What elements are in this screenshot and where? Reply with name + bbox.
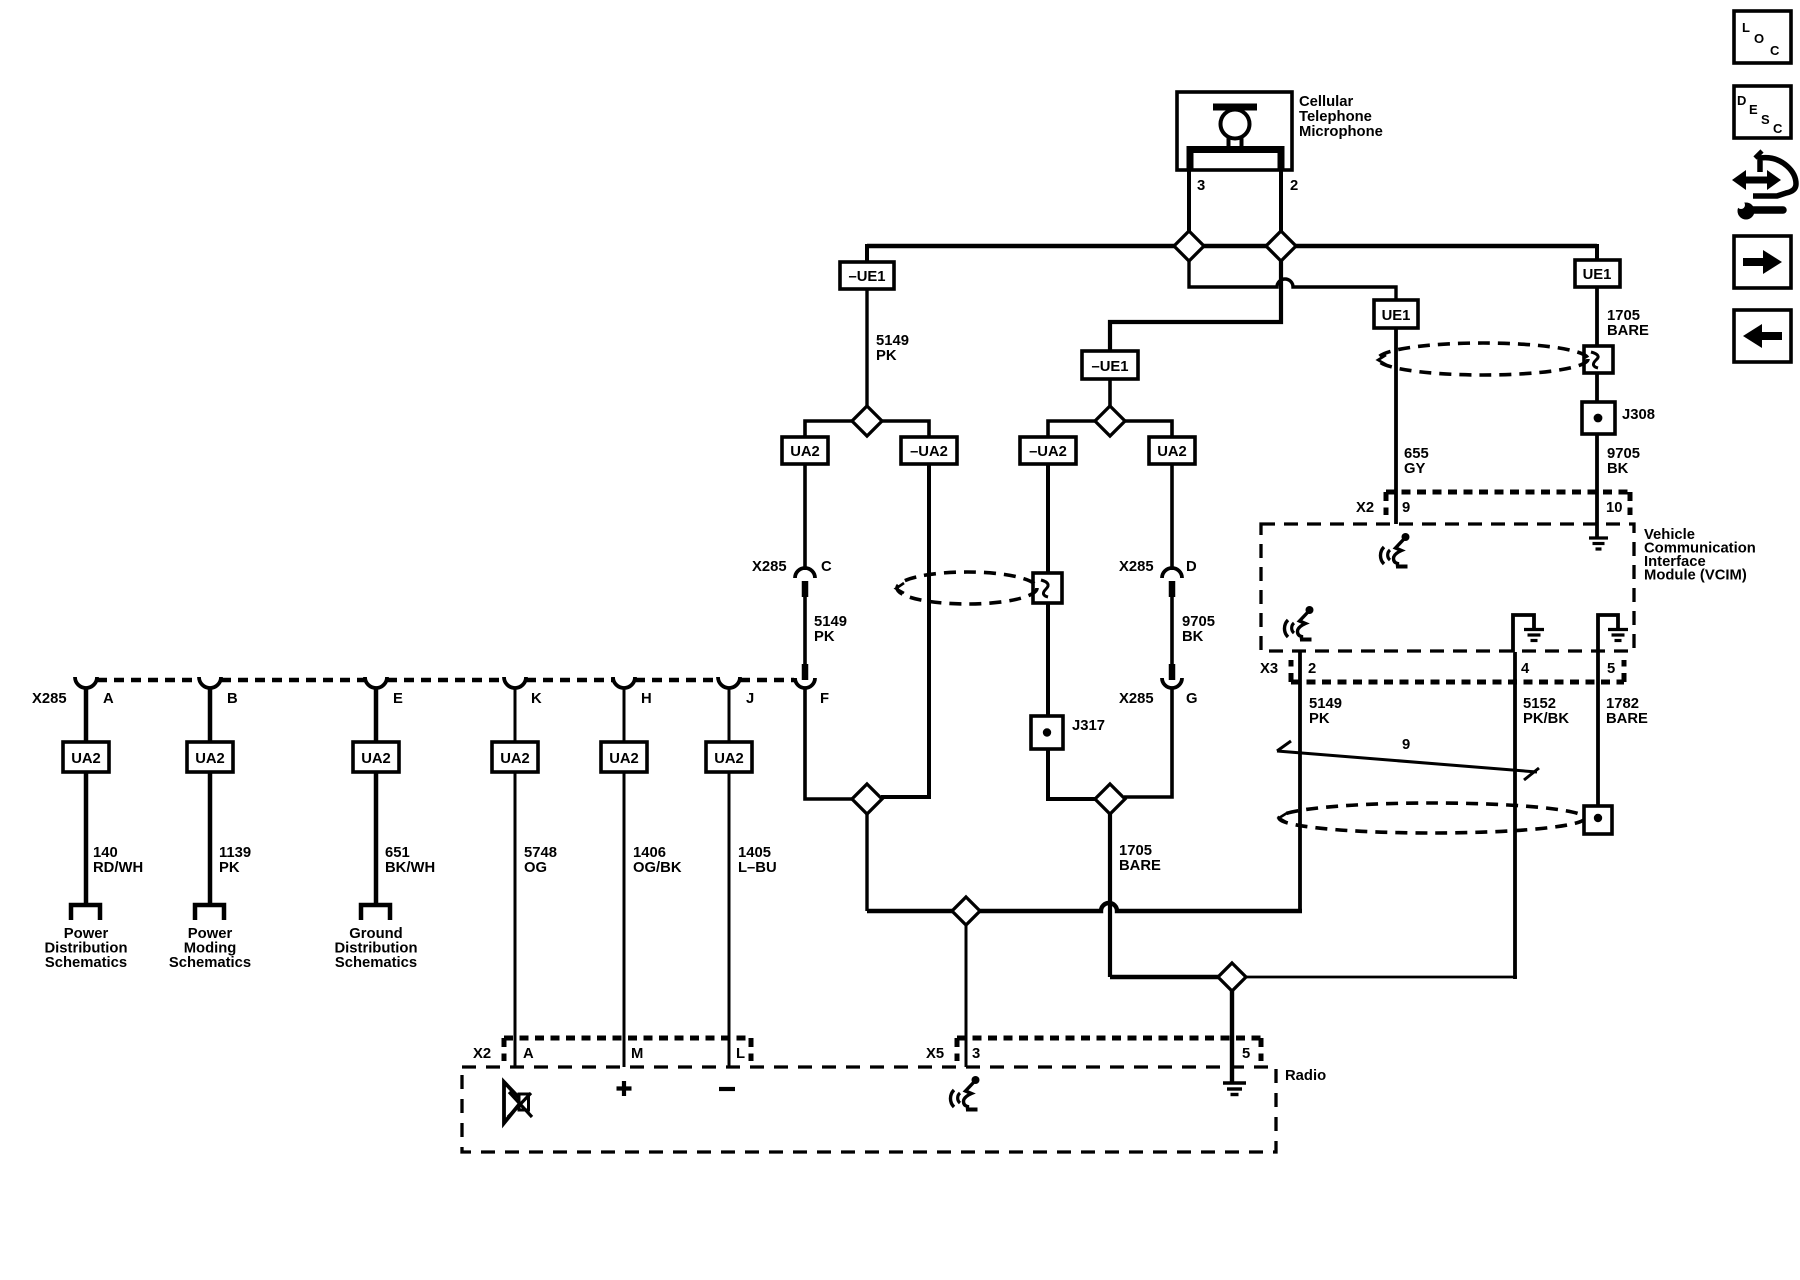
svg-text:A: A bbox=[103, 691, 114, 707]
svg-text:D: D bbox=[1186, 559, 1197, 575]
wire shield 1705 down from audio splice1 bbox=[865, 813, 868, 911]
wire bus right corner down to UE1 bbox=[1595, 244, 1599, 260]
svg-text:651: 651 bbox=[385, 845, 410, 861]
splice diamond audio pair1 bbox=[852, 784, 882, 814]
svg-text:PK: PK bbox=[1309, 711, 1330, 727]
twisted pair indicator 9 bbox=[1277, 737, 1539, 780]
wire split right pair bbox=[1048, 421, 1172, 437]
svg-text:O: O bbox=[1754, 31, 1764, 46]
svg-text:Telephone: Telephone bbox=[1299, 109, 1372, 125]
wire K to UA2 bbox=[514, 687, 517, 742]
svg-text:3: 3 bbox=[1197, 178, 1205, 194]
connector row X5 radio bbox=[957, 1038, 1261, 1061]
svg-text:5149: 5149 bbox=[876, 333, 909, 349]
wire J to UA2 bbox=[728, 687, 731, 742]
wire bus B horizontal thick bbox=[1110, 975, 1222, 979]
svg-text:X285: X285 bbox=[1119, 691, 1154, 707]
svg-text:Radio: Radio bbox=[1285, 1068, 1326, 1084]
svg-text:5748: 5748 bbox=[524, 845, 557, 861]
svg-text:H: H bbox=[641, 691, 652, 707]
connector row X2 VCIM bbox=[1386, 492, 1630, 515]
wire 9705 BK down to X2 pin 10 bbox=[1595, 434, 1599, 537]
connector X285 G bbox=[1162, 664, 1182, 688]
svg-text:Module (VCIM): Module (VCIM) bbox=[1644, 568, 1747, 584]
svg-text:L: L bbox=[1742, 20, 1750, 35]
shield ellipse right bbox=[1378, 343, 1588, 375]
wire 1139 PK down bbox=[208, 772, 213, 903]
svg-text:–UA2: –UA2 bbox=[910, 444, 948, 460]
caption Power Moding Schematics bbox=[169, 926, 251, 971]
svg-text:S: S bbox=[1761, 112, 1770, 127]
svg-text:D: D bbox=[1737, 93, 1746, 108]
svg-text:E: E bbox=[393, 691, 403, 707]
connector box UA2 K bbox=[492, 742, 538, 772]
svg-text:BARE: BARE bbox=[1119, 858, 1161, 874]
svg-text:4: 4 bbox=[1521, 661, 1530, 677]
wire bus left corner down to -UE1 bbox=[865, 244, 869, 263]
connector box UE1 right bbox=[1575, 260, 1620, 287]
connector X285 E bbox=[365, 677, 387, 688]
splice diamond audio pair2 bbox=[1095, 784, 1125, 814]
svg-text:X2: X2 bbox=[1356, 500, 1374, 516]
off-page bracket B bbox=[195, 905, 224, 920]
connector X285 A bbox=[75, 677, 97, 688]
wire radio pin3 drop bbox=[965, 925, 968, 1067]
label 5149 PK right bbox=[1309, 696, 1342, 727]
svg-text:10: 10 bbox=[1606, 500, 1622, 516]
label 1705 BARE mid bbox=[1119, 843, 1161, 874]
svg-text:G: G bbox=[1186, 691, 1198, 707]
shield drain box right bbox=[1584, 346, 1613, 373]
svg-text:L–BU: L–BU bbox=[738, 860, 777, 876]
svg-text:2: 2 bbox=[1290, 178, 1298, 194]
svg-text:UA2: UA2 bbox=[500, 751, 530, 767]
svg-text:BARE: BARE bbox=[1606, 711, 1648, 727]
ground symbol VCIM pin 10 bbox=[1589, 538, 1608, 549]
svg-text:5149: 5149 bbox=[814, 614, 847, 630]
svg-text:UE1: UE1 bbox=[1583, 267, 1612, 283]
connector box -UE1 top left bbox=[840, 262, 894, 289]
label Cellular Telephone Microphone bbox=[1299, 94, 1383, 140]
svg-text:UE1: UE1 bbox=[1382, 308, 1411, 324]
radio dashed box bbox=[462, 1067, 1276, 1152]
svg-text:UA2: UA2 bbox=[71, 751, 101, 767]
connector box UA2 A bbox=[63, 742, 109, 772]
icon left-arrow box bbox=[1734, 310, 1791, 362]
wire between shield box and J308 bbox=[1595, 373, 1599, 402]
svg-text:1139: 1139 bbox=[219, 845, 251, 861]
wire 9705 between D and G bbox=[1170, 597, 1174, 665]
connector box UA2 pair1 bbox=[782, 437, 828, 464]
svg-text:140: 140 bbox=[93, 845, 118, 861]
off-page bracket E bbox=[361, 905, 390, 920]
svg-text:9: 9 bbox=[1402, 500, 1410, 516]
svg-text:RD/WH: RD/WH bbox=[93, 860, 143, 876]
svg-text:5152: 5152 bbox=[1523, 696, 1556, 712]
ground symbol VCIM pin 5 bbox=[1598, 615, 1628, 652]
wire -UE1 mid down bbox=[1108, 379, 1112, 407]
icon arrows and wrench bbox=[1732, 151, 1796, 220]
svg-text:Cellular: Cellular bbox=[1299, 94, 1354, 110]
svg-text:C: C bbox=[1773, 121, 1783, 136]
label 9705 BK mid bbox=[1182, 614, 1215, 645]
svg-text:X2: X2 bbox=[473, 1046, 491, 1062]
splice diamond right pair top bbox=[1095, 406, 1125, 436]
wire 5149 between C and F bbox=[803, 597, 807, 665]
splice diamond left pair top bbox=[852, 406, 882, 436]
connector row X3 bbox=[1291, 660, 1624, 682]
splice J308 bbox=[1582, 402, 1615, 434]
splice J317 bbox=[1031, 716, 1063, 749]
wire bus A horizontal with hop bbox=[867, 903, 1302, 911]
svg-text:C: C bbox=[821, 559, 832, 575]
connector X285 F bbox=[795, 664, 815, 688]
label 1405 L-BU bbox=[738, 845, 777, 876]
svg-text:PK: PK bbox=[814, 629, 835, 645]
caption Ground Distribution Schematics bbox=[334, 926, 417, 971]
svg-text:3: 3 bbox=[972, 1046, 980, 1062]
label 1782 BARE bbox=[1606, 696, 1648, 727]
svg-text:Schematics: Schematics bbox=[169, 955, 251, 971]
svg-text:1406: 1406 bbox=[633, 845, 666, 861]
wire 5149 PK from X3 pin2 down to bus A bbox=[1298, 652, 1302, 913]
label 5149 PK mid bbox=[814, 614, 847, 645]
icon LOC box bbox=[1734, 11, 1791, 63]
splice diamond on bus pin2 bbox=[1266, 231, 1296, 261]
wire 655 GY from UE1 mid down to X2 pin 9 bbox=[1394, 328, 1398, 524]
svg-text:J: J bbox=[746, 691, 754, 707]
connector box UA2 J bbox=[706, 742, 752, 772]
svg-text:2: 2 bbox=[1308, 661, 1316, 677]
shield ellipse tip arrow right bbox=[1378, 355, 1386, 365]
label 5149 PK upper bbox=[876, 333, 909, 364]
svg-text:9705: 9705 bbox=[1182, 614, 1215, 630]
wire B to UA2 bbox=[208, 687, 213, 742]
wire 5149 from F down to audio splice bbox=[805, 687, 853, 799]
shield ellipse tip arrow bottom bbox=[1279, 813, 1287, 823]
wire 5748 OG down bbox=[514, 772, 517, 1067]
shield termination box bottom bbox=[1584, 806, 1612, 834]
wire 140 RD/WH down bbox=[84, 772, 89, 903]
connector X285 K bbox=[504, 677, 526, 688]
svg-text:GY: GY bbox=[1404, 461, 1426, 477]
svg-text:Microphone: Microphone bbox=[1299, 124, 1383, 140]
connector box UA2 H bbox=[601, 742, 647, 772]
handset symbol VCIM top bbox=[1380, 533, 1409, 567]
splice diamond on bus B bbox=[1218, 963, 1246, 991]
plus sign bbox=[617, 1081, 632, 1096]
connector X285 B bbox=[199, 677, 221, 688]
wire 5152 from X3 pin4 down to bus B bbox=[1513, 652, 1517, 979]
connector X285 H bbox=[613, 677, 635, 688]
connector row X2 radio bbox=[504, 1038, 751, 1061]
wire 1705 BARE from UE1 right down bbox=[1595, 287, 1599, 346]
svg-text:Schematics: Schematics bbox=[45, 955, 127, 971]
svg-text:1705: 1705 bbox=[1119, 843, 1152, 859]
wire UA2 pair1 down to connector C bbox=[803, 464, 807, 570]
wire below J317 to audio splice2 bbox=[1048, 749, 1096, 799]
svg-text:5: 5 bbox=[1242, 1046, 1250, 1062]
label 1705 BARE right bbox=[1607, 308, 1649, 339]
svg-text:X285: X285 bbox=[1119, 559, 1154, 575]
wire mic pin 3 down bbox=[1187, 168, 1191, 246]
off-page bracket A bbox=[71, 905, 100, 920]
label 1139 PK bbox=[219, 845, 251, 876]
wire mic pin 2 down bbox=[1279, 168, 1283, 246]
wire from G down to audio splice2 bbox=[1124, 687, 1172, 797]
svg-text:C: C bbox=[1770, 43, 1780, 58]
microphone symbol bbox=[1190, 104, 1281, 171]
caption Power Distribution Schematics bbox=[44, 926, 127, 971]
shield drain box pair2 bbox=[1033, 573, 1062, 603]
wire 1705 down from audio splice2 crossing bus A bbox=[1108, 813, 1112, 977]
speaker symbol muted bbox=[504, 1082, 532, 1123]
svg-text:E: E bbox=[1749, 102, 1758, 117]
cellular telephone microphone box bbox=[1177, 92, 1292, 170]
ground symbol VCIM pin 4 bbox=[1513, 615, 1544, 652]
splice diamond on bus A bbox=[952, 897, 980, 925]
label X285 G bbox=[1119, 691, 1198, 707]
svg-text:UA2: UA2 bbox=[1157, 444, 1187, 460]
handset symbol radio bbox=[950, 1076, 979, 1110]
wire bus B thin to 5152 bbox=[1242, 976, 1517, 979]
shield ellipse pair2 bbox=[897, 572, 1037, 604]
svg-text:5149: 5149 bbox=[1309, 696, 1342, 712]
svg-text:1405: 1405 bbox=[738, 845, 771, 861]
label 5748 OG bbox=[524, 845, 557, 876]
svg-text:X3: X3 bbox=[1260, 661, 1278, 677]
label Vehicle Communication Interface Module bbox=[1644, 527, 1756, 584]
svg-text:UA2: UA2 bbox=[195, 751, 225, 767]
svg-text:BARE: BARE bbox=[1607, 323, 1649, 339]
wire 651 BK/WH down bbox=[374, 772, 379, 903]
connector box UA2 B bbox=[187, 742, 233, 772]
wire -UA2 pair1 down to audio splice bbox=[881, 464, 929, 797]
connector box -UA2 pair1 bbox=[901, 437, 957, 464]
svg-text:BK: BK bbox=[1182, 629, 1204, 645]
wire 1782 BARE from X3 pin5 down to shield box bbox=[1596, 652, 1600, 806]
svg-text:BK/WH: BK/WH bbox=[385, 860, 435, 876]
connector box -UE1 mid bbox=[1082, 351, 1138, 379]
connector box -UA2 pair2 bbox=[1020, 437, 1076, 464]
svg-text:UA2: UA2 bbox=[714, 751, 744, 767]
svg-text:UA2: UA2 bbox=[361, 751, 391, 767]
label 9705 BK right bbox=[1607, 446, 1640, 477]
connector box UA2 E bbox=[353, 742, 399, 772]
svg-text:5: 5 bbox=[1607, 661, 1615, 677]
icon right-arrow box bbox=[1734, 236, 1791, 288]
connector box UA2 pair2 bbox=[1149, 437, 1195, 464]
connector X285 C bbox=[795, 568, 815, 597]
svg-text:K: K bbox=[531, 691, 542, 707]
svg-text:655: 655 bbox=[1404, 446, 1429, 462]
svg-text:9705: 9705 bbox=[1607, 446, 1640, 462]
connector X285 J bbox=[718, 677, 740, 688]
label 655 GY bbox=[1404, 446, 1429, 477]
svg-text:L: L bbox=[736, 1046, 745, 1062]
label X285 D bbox=[1119, 559, 1197, 575]
wire 1405 L-BU down bbox=[728, 772, 731, 1067]
wire E to UA2 bbox=[374, 687, 379, 742]
label 140 RD/WH bbox=[93, 845, 143, 876]
svg-text:X285: X285 bbox=[32, 691, 67, 707]
svg-text:UA2: UA2 bbox=[609, 751, 639, 767]
svg-text:X285: X285 bbox=[752, 559, 787, 575]
svg-text:A: A bbox=[523, 1046, 534, 1062]
svg-text:PK: PK bbox=[219, 860, 240, 876]
wire from right splice down then left to -UE1 bbox=[1110, 258, 1281, 351]
shield ellipse bottom bbox=[1279, 803, 1585, 833]
wire -UA2 pair2 down through shield box bbox=[1046, 464, 1050, 716]
shield ellipse tip arrow pair2 bbox=[896, 583, 904, 593]
wire 1406 OG/BK down bbox=[623, 772, 626, 1067]
svg-text:OG/BK: OG/BK bbox=[633, 860, 682, 876]
svg-text:B: B bbox=[227, 691, 238, 707]
svg-text:PK/BK: PK/BK bbox=[1523, 711, 1569, 727]
label 5152 PK/BK bbox=[1523, 696, 1569, 727]
label X285 C bbox=[752, 559, 832, 575]
svg-text:9: 9 bbox=[1402, 737, 1410, 753]
icon DESC box bbox=[1734, 86, 1791, 138]
ground symbol radio bbox=[1223, 1083, 1246, 1095]
svg-text:X5: X5 bbox=[926, 1046, 944, 1062]
svg-text:PK: PK bbox=[876, 348, 897, 364]
wire UA2 pair2 down to connector D bbox=[1170, 464, 1174, 570]
wire from left splice down then right to UE1 (hop over pin2 wire) bbox=[1189, 258, 1396, 300]
wire -UE1 left down bbox=[865, 289, 868, 407]
VCIM dashed box bbox=[1261, 524, 1634, 651]
svg-text:J317: J317 bbox=[1072, 718, 1105, 734]
wire A to UA2 bbox=[84, 687, 89, 742]
svg-text:OG: OG bbox=[524, 860, 547, 876]
svg-text:–UA2: –UA2 bbox=[1029, 444, 1067, 460]
wire top bus bbox=[867, 244, 1597, 248]
svg-text:J308: J308 bbox=[1622, 407, 1655, 423]
connector X285 D bbox=[1162, 568, 1182, 597]
svg-text:M: M bbox=[631, 1046, 643, 1062]
label 651 BK/WH bbox=[385, 845, 435, 876]
svg-text:1705: 1705 bbox=[1607, 308, 1640, 324]
label 1406 OG/BK bbox=[633, 845, 682, 876]
handset symbol VCIM left bbox=[1284, 606, 1313, 640]
wire split left pair bbox=[805, 421, 929, 437]
svg-text:UA2: UA2 bbox=[790, 444, 820, 460]
svg-text:–UE1: –UE1 bbox=[1091, 359, 1128, 375]
connector row X285 dotted segments bbox=[97, 678, 794, 683]
connector box UE1 mid bbox=[1374, 300, 1418, 328]
svg-text:–UE1: –UE1 bbox=[848, 269, 885, 285]
svg-text:F: F bbox=[820, 691, 829, 707]
svg-text:1782: 1782 bbox=[1606, 696, 1639, 712]
minus sign bbox=[719, 1087, 735, 1091]
wire H to UA2 bbox=[623, 687, 626, 742]
svg-text:BK: BK bbox=[1607, 461, 1629, 477]
splice diamond on bus pin3 bbox=[1174, 231, 1204, 261]
wire radio pin5 ground drop bbox=[1230, 991, 1234, 1083]
svg-text:Schematics: Schematics bbox=[335, 955, 417, 971]
